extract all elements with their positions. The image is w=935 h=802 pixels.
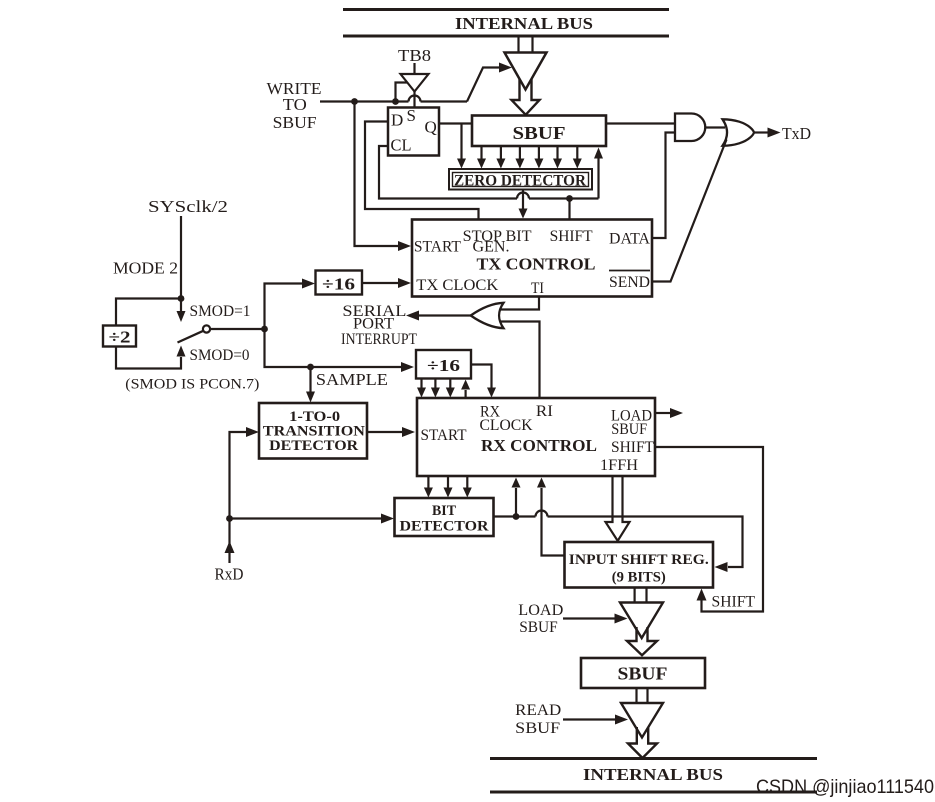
- label: MODE 2: [113, 259, 178, 278]
- wire: clock node up to divider Z2 (tx /16): [265, 284, 304, 330]
- label: FF1 pin S: [407, 106, 416, 125]
- wire: FF1 Q output to SBUF ninth-bit input: [439, 122, 472, 124]
- label: TX CLOCK: [416, 277, 498, 294]
- wire: DATA output up to AND gate: [652, 133, 674, 239]
- wire: LOAD SBUF output arrow: [655, 408, 683, 418]
- wires: SBUF outputs into ZERO DETECTOR (6 arrows): [477, 146, 582, 169]
- svg-text:INTERNAL BUS: INTERNAL BUS: [583, 765, 723, 784]
- svg-text:INTERRUPT: INTERRUPT: [341, 331, 417, 348]
- wires: RX CONTROL into BIT DETECTOR (3 arrows): [424, 476, 472, 498]
- wire: detector output to RX START: [367, 431, 403, 433]
- label: divide-by-16 (tx): [322, 275, 355, 294]
- watermark: CSDN @jinjiao111540: [756, 776, 934, 798]
- arrow: SHIFT into shift register bottom: [697, 589, 707, 601]
- wire: SYSclk/2 down to SMOD node: [180, 216, 182, 299]
- svg-text:READ: READ: [515, 702, 561, 719]
- svg-text:SBUF: SBUF: [513, 123, 566, 143]
- arrow into divider Z3: [401, 362, 414, 372]
- bus line: internal bus bottom lower rail: [490, 791, 817, 794]
- label: INPUT SHIFT REG. (9 BITS): [569, 552, 709, 586]
- svg-text:TX CLOCK: TX CLOCK: [416, 277, 498, 294]
- label: SEND with overbar: [609, 271, 650, 292]
- svg-text:SBUF: SBUF: [519, 619, 558, 636]
- wire: RxD rise to detector input: [230, 432, 248, 563]
- switch SW1 arm: [178, 331, 204, 343]
- junction: SHIFT node on CL net: [566, 195, 573, 202]
- arrow into INPUT SHIFT REG right side: [715, 562, 728, 572]
- svg-text:1FFH: 1FFH: [600, 457, 638, 474]
- label: TX CONTROL: [477, 255, 596, 274]
- svg-text:SHIFT: SHIFT: [712, 594, 756, 611]
- switch SW1 pole (open circle): [203, 325, 210, 332]
- label: divide-by-2: [109, 328, 131, 347]
- wire: SHIFT node down into TX CONTROL top: [568, 199, 570, 220]
- label: CLOCK: [480, 417, 533, 434]
- label: SHIFT (rx): [611, 439, 654, 456]
- arrow: SMOD=1 contact: [177, 311, 186, 322]
- wire: RX SHIFT route to shift register bottom: [655, 447, 763, 612]
- junction: WRITE-TO-SBUF start-branch node: [351, 98, 358, 105]
- arrow into U4 left side: [615, 715, 628, 725]
- svg-text:SEND: SEND: [609, 274, 650, 291]
- wire: G3 output to interrupt label: [418, 314, 471, 316]
- arrow into 1-TO-0 detector left: [246, 427, 259, 437]
- label: RI: [536, 403, 553, 420]
- wire: Z2 output to TX CLOCK: [362, 282, 399, 284]
- label: DATA: [609, 231, 650, 248]
- buffer U3 (load-SBUF driver, open triangle): [620, 603, 663, 639]
- wire: branch to divider Z1: [116, 299, 181, 326]
- arrow into SBUF bottom (shift clock): [594, 148, 603, 159]
- svg-text:DATA: DATA: [609, 231, 650, 248]
- wire: SAMPLE branch down to transition detector: [309, 367, 311, 393]
- wires: Z3 outputs into RX CONTROL (3 arrows): [417, 379, 455, 398]
- junction: bit detector output node: [513, 513, 520, 520]
- bus line: internal bus top lower rail: [343, 35, 669, 38]
- buffer U4 (read-SBUF driver, open triangle): [621, 703, 663, 738]
- wire: 1FFH preset double line into shift register: [606, 476, 630, 541]
- wire: double line from internal bus to write buffer U1: [519, 37, 533, 53]
- arrow: SMOD=0 contact: [177, 346, 186, 357]
- arrow into Z2: [302, 279, 315, 289]
- wire: U2 enable stub from WRITE-TO-SBUF node: [396, 83, 408, 102]
- arrow into TX CONTROL TX CLOCK: [398, 278, 411, 288]
- label: START (tx): [414, 239, 461, 256]
- svg-text:MODE 2: MODE 2: [113, 259, 178, 278]
- svg-text:START: START: [421, 427, 467, 444]
- label: GEN.: [473, 239, 510, 256]
- wire: FF1 D input from TX CONTROL top: [365, 122, 479, 220]
- wire: LOAD SBUF into U3: [563, 617, 615, 619]
- wire: SMOD=1 contact stem: [180, 299, 182, 313]
- svg-text:PORT: PORT: [353, 316, 394, 333]
- or-gate G3 (interrupt, mirrored): [471, 303, 504, 328]
- junction: clock distribution node: [261, 326, 268, 333]
- label: 1FFH: [600, 457, 638, 474]
- wire: ZERO DETECTOR output down to TX CONTROL: [522, 190, 524, 210]
- label: LOAD SBUF (into U3): [518, 602, 563, 636]
- label: SBUF (rx load): [611, 421, 647, 438]
- arrow into RX CONTROL START: [402, 427, 415, 437]
- svg-text:CLOCK: CLOCK: [480, 417, 533, 434]
- wire: receive SBUF output double line: [637, 688, 648, 703]
- svg-text:SBUF: SBUF: [618, 664, 668, 684]
- wire: SEND diagonal up to G2: [652, 140, 727, 282]
- junction: enable node on WRITE-TO-SBUF wire: [392, 98, 399, 105]
- wire: RxD node to BIT DETECTOR: [230, 517, 383, 519]
- svg-text:SHIFT: SHIFT: [611, 439, 654, 456]
- wire: diagonal from WRITE wire up to U1 enable: [467, 68, 499, 102]
- and-gate G1: [675, 114, 705, 142]
- svg-text:RI: RI: [536, 403, 553, 420]
- svg-text:Q: Q: [425, 118, 437, 137]
- label: READ SBUF: [515, 702, 561, 737]
- label: RX CONTROL: [481, 436, 597, 455]
- block ZERO DETECTOR (double border): [449, 169, 592, 190]
- svg-text:GEN.: GEN.: [473, 239, 510, 256]
- wire: TB8 stem: [413, 63, 415, 74]
- svg-text:CL: CL: [391, 136, 412, 155]
- wire: SW1 pole to clock node: [210, 328, 265, 330]
- block INPUT SHIFT REG box: [565, 542, 714, 588]
- label: SHIFT (feedback): [712, 594, 756, 611]
- svg-text:SBUF: SBUF: [611, 421, 647, 438]
- wire: WRITE TO SBUF horizontal run with hop over S line: [320, 96, 467, 102]
- svg-text:(SMOD IS PCON.7): (SMOD IS PCON.7): [125, 377, 259, 393]
- svg-text:÷16: ÷16: [427, 356, 460, 375]
- label: START (rx): [421, 427, 467, 444]
- label: TxD: [782, 124, 811, 143]
- arrow: RxD direction marker: [225, 541, 235, 553]
- arrow into BIT DETECTOR left: [381, 514, 394, 524]
- svg-text:RX CONTROL: RX CONTROL: [481, 436, 597, 455]
- wire: shift register feedback up into RX CONTROL (crosses under hop): [537, 478, 565, 556]
- wire: clock node down to SAMPLE run: [265, 329, 403, 367]
- label: SAMPLE: [316, 370, 388, 389]
- svg-text:CSDN @jinjiao111540: CSDN @jinjiao111540: [756, 776, 934, 798]
- svg-text:INPUT SHIFT REG.: INPUT SHIFT REG.: [569, 552, 709, 568]
- buffer U2 (TB8 gated driver, open triangle): [401, 74, 429, 92]
- wire: TI down from TX CONTROL to OR1: [500, 297, 539, 310]
- svg-text:TO: TO: [283, 95, 307, 114]
- register SBUF (transmit buffer) box: [472, 116, 606, 147]
- label: TB8: [398, 46, 431, 65]
- open block arrow from U3 into receive SBUF: [627, 627, 657, 655]
- label: LOAD (rx): [611, 408, 652, 425]
- wire: RX CONTROL feedback up into Z3: [461, 380, 470, 399]
- wire: RI from G3 down to RX CONTROL: [500, 322, 540, 399]
- junction: RxD to bit detector node: [226, 515, 233, 522]
- wire: Z3 right output down into RX CONTROL: [471, 365, 492, 389]
- svg-text:TxD: TxD: [782, 124, 811, 143]
- svg-text:÷16: ÷16: [322, 275, 355, 294]
- svg-text:SYSclk/2: SYSclk/2: [148, 197, 228, 216]
- junction: SAMPLE branch node: [307, 364, 314, 371]
- wire: bit-detector sample feedback up into RX CONTROL: [512, 478, 521, 517]
- label: SYSclk/2: [148, 197, 228, 216]
- label: INTERNAL BUS (top): [455, 14, 593, 33]
- block RX CONTROL box: [417, 398, 655, 476]
- wire: Q branch down to zero detector: [460, 124, 462, 162]
- block TX CONTROL box: [412, 220, 652, 297]
- arrow into U1 left side: [499, 63, 512, 73]
- wire: shift register output double line: [635, 588, 647, 604]
- arrow into ZERO DETECTOR from Q: [457, 159, 466, 169]
- wire: BIT DETECTOR output run with hop, to shift register input: [494, 511, 743, 568]
- svg-text:SMOD=1: SMOD=1: [190, 303, 251, 320]
- svg-text:SBUF: SBUF: [515, 720, 560, 737]
- svg-text:SBUF: SBUF: [273, 113, 317, 132]
- wire: READ SBUF into U4: [563, 718, 615, 720]
- bus line: internal bus bottom upper rail: [490, 757, 817, 760]
- wire: G1 output to OR gate G2: [705, 126, 725, 128]
- block BIT DETECTOR box: [395, 498, 494, 536]
- wire: G2 output: [754, 131, 768, 133]
- svg-text:TI: TI: [531, 280, 544, 297]
- label: divide-by-16 (rx): [427, 356, 460, 375]
- buffer U1 (write-to-SBUF tri-state driver, open triangle): [505, 53, 547, 90]
- svg-text:SHIFT: SHIFT: [550, 228, 593, 245]
- svg-text:÷2: ÷2: [109, 328, 131, 347]
- label: 1-TO-0 TRANSITION DETECTOR: [263, 409, 365, 454]
- label: FF1 pin CL: [391, 136, 412, 155]
- wire: CL net branch up into SBUF bottom: [597, 156, 599, 199]
- label: TI: [531, 280, 544, 297]
- svg-text:BIT: BIT: [432, 503, 456, 519]
- arrow into 1-TO-0 detector top: [306, 392, 315, 403]
- open block arrow from U1 into SBUF: [512, 79, 540, 115]
- open block arrow from U4 onto internal bus: [628, 727, 657, 758]
- divider Z2 box (tx divide by 16): [316, 271, 363, 295]
- arrow into TX CONTROL from zero detector: [519, 209, 528, 219]
- wire: U2 output down to flip-flop S input (passes under hop): [413, 92, 415, 108]
- arrow into TX CONTROL START: [398, 241, 411, 251]
- label: FF1 pin D: [391, 111, 403, 130]
- label: STOP BIT: [463, 228, 532, 245]
- svg-text:START: START: [414, 239, 461, 256]
- label: (SMOD IS PCON.7): [125, 377, 259, 393]
- label: RxD: [215, 565, 244, 584]
- svg-text:LOAD: LOAD: [518, 602, 563, 619]
- flip-flop FF1 box (9th-bit latch): [388, 108, 439, 156]
- wire: WRITE branch down to TX CONTROL START input: [355, 102, 400, 247]
- arrow into U3 left side: [615, 614, 628, 624]
- svg-text:DETECTOR: DETECTOR: [400, 519, 489, 535]
- divider Z1 box (divide by 2): [103, 326, 136, 347]
- block 1-TO-0 TRANSITION DETECTOR box: [259, 403, 367, 459]
- label: SHIFT (tx): [550, 228, 593, 245]
- svg-text:INTERNAL BUS: INTERNAL BUS: [455, 14, 593, 33]
- junction: SMOD branch node: [178, 295, 185, 302]
- svg-text:TB8: TB8: [398, 46, 431, 65]
- svg-text:ZERO DETECTOR: ZERO DETECTOR: [454, 173, 587, 190]
- arrow into RX CONTROL top (rx clock): [487, 388, 496, 398]
- bus line: internal bus top upper rail: [343, 8, 669, 11]
- svg-text:SAMPLE: SAMPLE: [316, 370, 388, 389]
- label: BIT DETECTOR: [400, 503, 489, 535]
- svg-text:DETECTOR: DETECTOR: [269, 438, 358, 454]
- label: SBUF (receive): [618, 664, 668, 684]
- label: RX: [480, 404, 500, 421]
- label: SBUF (transmit): [513, 123, 566, 143]
- wire: SBUF output to AND gate: [606, 122, 675, 124]
- arrow to SERIAL PORT INTERRUPT: [406, 311, 419, 321]
- label: SERIAL PORT INTERRUPT: [341, 303, 417, 348]
- register SBUF (receive buffer) box: [581, 658, 705, 688]
- label: FF1 pin Q: [425, 118, 437, 137]
- label: INTERNAL BUS (bottom): [583, 765, 723, 784]
- label: SMOD=1: [190, 303, 251, 320]
- wire: Z1 output to SMOD=0 contact: [116, 347, 181, 369]
- or-gate G2: [723, 119, 755, 145]
- svg-text:TX CONTROL: TX CONTROL: [477, 255, 596, 274]
- svg-text:RxD: RxD: [215, 565, 244, 584]
- label: WRITE TO SBUF: [267, 79, 322, 132]
- divider Z3 box (rx divide by 16): [416, 350, 471, 379]
- arrow to TxD: [768, 128, 781, 138]
- label: SMOD=0: [190, 347, 250, 364]
- svg-text:SMOD=0: SMOD=0: [190, 347, 250, 364]
- svg-text:S: S: [407, 106, 416, 125]
- svg-text:(9 BITS): (9 BITS): [612, 570, 666, 586]
- label: ZERO DETECTOR: [454, 173, 587, 190]
- svg-text:D: D: [391, 111, 403, 130]
- wire: FF1 CL net to SHIFT node with hop over zero-detector output: [379, 146, 599, 199]
